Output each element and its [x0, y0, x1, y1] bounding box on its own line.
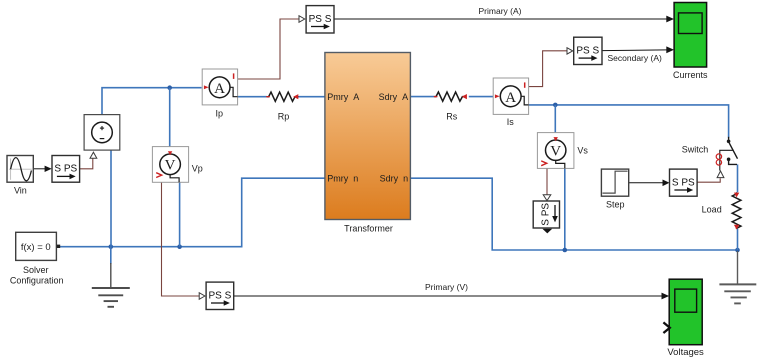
label Vin: [14, 186, 27, 196]
resistor Rp: [266, 92, 298, 101]
label Load: [702, 204, 722, 214]
transformer block: [325, 53, 411, 220]
svg-text:PS S: PS S: [576, 45, 599, 56]
svg-text:Rs: Rs: [446, 111, 457, 121]
converter S PS U_sps2 (switch control): [670, 169, 698, 196]
controlled voltage source: [84, 115, 120, 151]
converter PS S U_pss3 (primary voltage): [206, 282, 234, 309]
converter PS S U_pss2 (secondary current): [574, 37, 602, 64]
svg-text:Vp: Vp: [192, 164, 203, 174]
svg-text:Pmry A: Pmry A: [327, 92, 359, 102]
port unconnected output chevron of U_sps3: [542, 229, 552, 234]
wire: primary bus from solver config to transformer Pmry n: [60, 178, 325, 247]
converter S PS U_sps1: [52, 156, 80, 183]
scope Voltages: [669, 279, 702, 345]
label Currents: [673, 70, 708, 80]
source block Vin (sine wave): [7, 156, 33, 183]
svg-text:Primary (V): Primary (V): [425, 282, 468, 292]
wire: Rs to Is input: [469, 96, 493, 98]
node junction Vs on secondary bus: [563, 248, 568, 253]
resistor Rs: [434, 92, 467, 101]
wire: junction down to Vs top: [554, 105, 556, 133]
label Ip: [215, 108, 223, 118]
source block Step: [601, 169, 628, 196]
wire: Vs bottom output down to secondary bus: [564, 168, 566, 250]
svg-text:Step: Step: [606, 200, 625, 210]
node junction voltage source minus on primary bus: [109, 244, 114, 249]
svg-text:Vs: Vs: [577, 146, 588, 156]
label Solver Configuration: [10, 265, 64, 286]
wire PS: S PS converter to voltage source control: [80, 158, 93, 168]
wire: Is output to switch top: [528, 105, 728, 138]
wire: voltage source minus down to primary bus: [110, 150, 112, 247]
wire: voltage source top to Ip (node V+): [102, 88, 202, 115]
svg-text:Transformer: Transformer: [344, 224, 393, 234]
svg-text:Ip: Ip: [215, 108, 223, 118]
port unconnected input 2 of Voltages scope: [663, 322, 669, 333]
node junction Is output bus to Vs: [553, 103, 558, 108]
switch control port coil glyph: [716, 154, 721, 165]
svg-text:A: A: [214, 81, 225, 97]
svg-text:Switch: Switch: [682, 144, 709, 154]
svg-text:Configuration: Configuration: [10, 275, 64, 285]
svg-text:Secondary (A): Secondary (A): [608, 53, 662, 63]
wire PS: S PS converter to switch control: [697, 178, 720, 182]
wire: switch bottom to load top: [737, 164, 739, 192]
sensor Vs (voltmeter): [537, 133, 574, 169]
wire: PS S to Voltages scope port 1, Primary (V): [234, 293, 669, 300]
converter S PS U_sps3 (rotated, secondary voltage): [533, 201, 559, 228]
sensor Is (ammeter): [493, 78, 528, 114]
svg-text:Currents: Currents: [673, 70, 708, 80]
ground (primary side): [92, 263, 130, 307]
scope Currents: [674, 3, 707, 68]
svg-text:S PS: S PS: [540, 203, 551, 226]
port PS triangle into voltage source: [90, 152, 97, 158]
label Vs: [577, 146, 588, 156]
sensor Ip (ammeter): [202, 69, 237, 105]
svg-text:Is: Is: [507, 117, 515, 127]
label Voltages: [667, 347, 704, 358]
svg-text:f(x) = 0: f(x) = 0: [21, 242, 51, 253]
svg-text:S PS: S PS: [672, 177, 695, 188]
svg-text:Solver: Solver: [23, 265, 49, 275]
wire: Ip output to Rp: [237, 96, 267, 98]
svg-text:Sdry n: Sdry n: [380, 173, 409, 183]
wire: PS S to Currents scope port 1, Primary (A): [334, 16, 674, 23]
node junction load/ground on secondary bus: [735, 248, 740, 253]
wire: top bus junction down to Vp top: [169, 88, 171, 147]
label Step: [606, 200, 625, 210]
wire: Vin to S PS converter: [33, 166, 51, 172]
switch (ideal switch icon): [720, 137, 738, 171]
port PS triangle into PS S U_pss1: [299, 16, 305, 23]
wire: transformer Sdry A to Rs: [410, 96, 434, 98]
label Switch: [682, 144, 709, 154]
label Primary (A): [479, 6, 522, 16]
label Vp: [192, 164, 203, 174]
wire PS: Is current output up to PS S converter: [528, 51, 567, 87]
svg-text:S PS: S PS: [54, 164, 77, 175]
wire: Rp to transformer Pmry A: [298, 96, 325, 98]
label Rs: [446, 111, 457, 121]
wire: secondary bus from transformer Sdry n to ground/load: [410, 178, 737, 250]
label Primary (V): [425, 282, 468, 292]
label Is: [507, 117, 515, 127]
label Transformer: [344, 224, 393, 234]
wire: Step to S PS converter: [629, 180, 670, 187]
ground (secondary side): [719, 251, 756, 303]
resistor Load (vertical): [732, 192, 741, 229]
svg-text:A: A: [505, 90, 516, 106]
wire: primary bus down to left ground: [110, 247, 112, 264]
svg-text:Load: Load: [702, 204, 722, 214]
port PS triangle into PS S U_pss2: [567, 48, 573, 54]
node junction Vp on primary bus: [177, 244, 182, 249]
wire PS: Vp voltage output down to PS S converter: [162, 182, 200, 296]
node junction at top bus to Vp: [167, 85, 172, 90]
port PS triangle into PS S U_pss3: [199, 293, 205, 300]
svg-text:Voltages: Voltages: [667, 347, 704, 358]
wire: load bottom to secondary bus: [737, 229, 739, 250]
svg-text:Primary (A): Primary (A): [479, 6, 522, 16]
port PS triangle into switch control: [717, 171, 724, 178]
label Secondary (A): [608, 53, 662, 63]
svg-text:V: V: [550, 144, 561, 160]
svg-text:Rp: Rp: [278, 111, 290, 121]
svg-text:Pmry n: Pmry n: [327, 173, 358, 183]
converter PS S U_pss1 (primary current): [306, 6, 334, 33]
wire PS: Ip current output up to PS S converter: [237, 19, 299, 79]
svg-text:PS S: PS S: [209, 290, 232, 301]
svg-text:PS S: PS S: [309, 14, 332, 25]
svg-text:V: V: [165, 158, 176, 174]
port PS triangle into S PS U_sps3: [543, 195, 551, 201]
wire: PS S to Currents scope port 2, Secondary (A): [602, 46, 674, 53]
wire PS: Vs voltage output down to S PS converter: [546, 168, 548, 194]
label Rp: [278, 111, 290, 121]
block Solver Configuration f(x)=0: [16, 232, 61, 260]
sensor Vp (voltmeter): [152, 147, 188, 183]
wire: Vp bottom output down to primary bus: [179, 182, 181, 246]
svg-text:Vin: Vin: [14, 186, 27, 196]
svg-text:Sdry A: Sdry A: [379, 92, 409, 102]
